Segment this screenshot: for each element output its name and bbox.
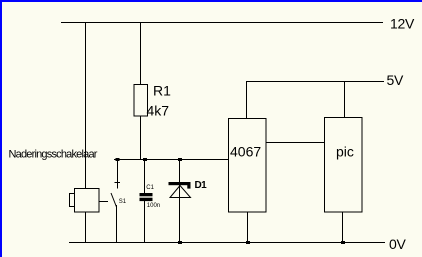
svg-text:pic: pic (336, 144, 354, 160)
sensor switch body box (75, 189, 100, 213)
wire 0V rail (69, 242, 385, 244)
0V junction dot at 4067 (246, 241, 250, 244)
wire 12V rail (61, 22, 383, 24)
capacitor C1 plate upper (140, 193, 153, 196)
wire switch contact tick (115, 182, 121, 184)
diode D1 cathode bar (169, 182, 191, 185)
wire node to capacitor top (144, 160, 146, 194)
wire 4067 bottom to 0V (247, 212, 249, 243)
wire sensor bottom to 0V (85, 212, 87, 243)
wire 5V down to pic top (344, 82, 346, 119)
diode D1 anode triangle (170, 186, 191, 198)
wire capacitor bottom to 0V (144, 201, 146, 243)
svg-text:5V: 5V (387, 72, 404, 88)
node junction dot at switch (116, 158, 120, 161)
svg-text:Naderingsschakelaar: Naderingsschakelaar (9, 149, 98, 161)
wire 12V rail to R1 top (140, 23, 142, 85)
svg-text:D1: D1 (195, 180, 208, 191)
diode D1 cathode bar right hook (187, 185, 190, 189)
svg-text:4067: 4067 (230, 144, 261, 160)
wire switch bottom to 0V (116, 205, 118, 243)
svg-text:R1: R1 (153, 83, 171, 99)
wire 5V down to 4067 top (246, 82, 248, 119)
resistor R1 body (134, 85, 148, 117)
wire node through diode D1 to 0V (179, 160, 181, 244)
IC U1 4067 box (229, 119, 267, 213)
capacitor C1 plate lower (140, 198, 153, 201)
0V junction dot at diode (178, 241, 182, 244)
wire left rail 12V down to sensor (85, 23, 87, 190)
wire switch top contact (117, 160, 119, 189)
wire R1 bottom to node (140, 116, 142, 160)
frame top blue border (0, 0, 422, 2)
svg-text:S1: S1 (119, 199, 127, 205)
svg-text:100n: 100n (147, 203, 160, 209)
frame left blue border (0, 0, 2, 257)
wire 4067 to pic (266, 142, 324, 144)
IC U2 pic box (325, 118, 363, 213)
svg-text:C1: C1 (146, 185, 154, 191)
sensor switch side tab (70, 194, 75, 207)
node junction dot at capacitor (143, 158, 147, 161)
svg-text:12V: 12V (390, 16, 415, 32)
svg-text:4k7: 4k7 (147, 103, 170, 119)
switch S1 blade (111, 193, 117, 207)
0V junction dot at pic (341, 241, 345, 244)
wire sensor to switch stub (99, 201, 108, 203)
wire node A horizontal to 4067 (114, 159, 228, 161)
wire 5V rail (246, 81, 384, 83)
wire pic bottom to 0V (342, 212, 344, 243)
node junction dot at diode (178, 158, 182, 161)
svg-text:0V: 0V (389, 236, 406, 252)
